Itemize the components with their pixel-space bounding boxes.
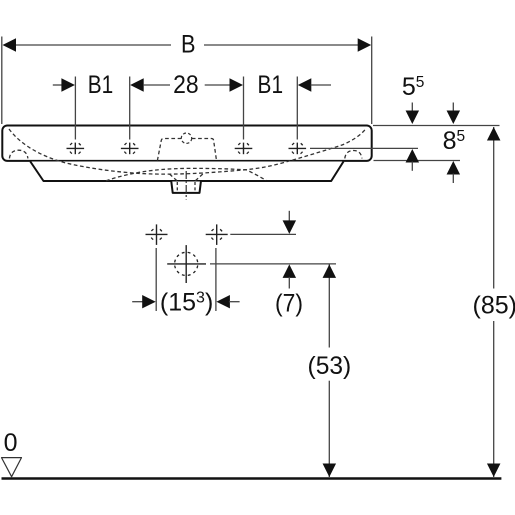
svg-text:B1: B1 — [258, 71, 284, 99]
dimension 28 left arrow — [130, 78, 170, 91]
svg-text:(153): (153) — [160, 289, 213, 317]
bowl hidden rim curve — [9, 129, 366, 175]
svg-text:0: 0 — [4, 429, 18, 457]
dimension 53 line upper — [328, 264, 330, 347]
drain funnel dashed left — [170, 174, 178, 181]
fixing hole extension line right — [215, 248, 217, 311]
overflow small circle — [181, 133, 191, 143]
dimension 7 lower arrow — [283, 264, 297, 288]
overflow right bump — [345, 151, 362, 159]
dimension 15.3 left arrow — [132, 295, 156, 308]
dimension B extension line right — [371, 37, 373, 125]
dimension 7 upper arrow — [283, 211, 297, 234]
basin drain stub — [171, 182, 201, 193]
dimension 8.5 upper arrow — [447, 103, 461, 125]
floor level symbol — [2, 458, 22, 477]
dimension B1 left arrow — [53, 78, 75, 91]
dimension 85 lower arrow — [487, 464, 501, 478]
svg-text:55: 55 — [402, 73, 425, 101]
dimension B1 right arrow — [298, 78, 331, 91]
drain stub inner dashed left — [176, 182, 178, 192]
tap hole 2 — [121, 142, 139, 154]
dimension 53 upper arrow — [323, 264, 337, 278]
dimension B arrow left — [3, 38, 17, 51]
fixing hole extension line left — [155, 248, 157, 311]
fixing hole right — [206, 224, 228, 245]
drain centerline — [185, 171, 187, 200]
basin rim slab outline — [2, 126, 371, 161]
dimension 85 line upper — [493, 127, 495, 289]
svg-text:28: 28 — [173, 71, 199, 99]
siphon hole — [167, 245, 206, 283]
siphon hole line to right — [210, 263, 336, 265]
fixing hole line to right — [230, 233, 296, 235]
svg-text:B1: B1 — [88, 71, 114, 99]
extension line tap hole 1 — [74, 77, 76, 140]
hidden trap outline trapezoid — [157, 139, 216, 161]
dimension 85 upper arrow — [487, 127, 501, 141]
fixing hole left — [146, 224, 168, 245]
tap hole 1 — [67, 142, 85, 154]
extension line tap hole 4 — [296, 77, 298, 140]
dimension 5.5 upper arrow — [406, 103, 420, 125]
svg-text:(85): (85) — [473, 292, 515, 320]
basin apron outline — [30, 162, 343, 182]
drain funnel dashed right — [195, 174, 203, 181]
svg-text:(7): (7) — [275, 290, 303, 318]
drain stub inner dashed right — [194, 182, 196, 192]
rim bottom reference line right — [374, 160, 461, 162]
dimension 53 line lower — [328, 381, 330, 477]
dimension B arrow right — [358, 38, 372, 51]
svg-text:B: B — [181, 31, 196, 59]
floor line — [2, 477, 502, 480]
dimension 15.3 right arrow — [216, 295, 239, 308]
dimension 5.5 lower arrow — [406, 149, 420, 171]
tap hole 4 — [289, 142, 307, 154]
dimension B line — [14, 44, 359, 46]
tap hole centerline extension to right — [310, 147, 418, 149]
bowl hidden bottom curve — [106, 168, 266, 180]
dimension B extension line left — [1, 37, 3, 125]
dimension 85 line lower — [493, 321, 495, 477]
svg-text:(53): (53) — [308, 352, 352, 380]
dimension 53 lower arrow — [323, 464, 337, 478]
dimension 8.5 lower arrow — [447, 161, 461, 183]
dimension 28 right arrow — [205, 78, 243, 91]
tap hole 3 — [235, 142, 253, 154]
overflow left bump — [9, 150, 28, 158]
svg-text:85: 85 — [443, 127, 466, 155]
extension line tap hole 3 — [243, 77, 245, 140]
extension line tap hole 2 — [129, 77, 131, 140]
rim top reference line right — [373, 125, 500, 127]
